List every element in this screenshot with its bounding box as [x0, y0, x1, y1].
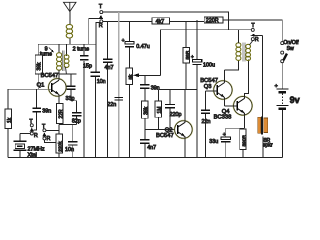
- wire Q4 collector: [245, 60, 249, 99]
- wire mid V+ line: [161, 29, 252, 31]
- svg-text:220p: 220p: [170, 112, 182, 118]
- svg-text:+: +: [191, 54, 194, 60]
- svg-text:R: R: [34, 133, 38, 139]
- svg-text:22n: 22n: [107, 102, 116, 108]
- wire emitter junction line: [59, 123, 77, 134]
- wire antenna to tank line: [69, 39, 71, 45]
- capacitor 220p: [165, 90, 175, 130]
- resistor 1k: [5, 89, 13, 157]
- svg-text:4k7: 4k7: [156, 19, 165, 25]
- svg-text:R: R: [99, 23, 103, 29]
- wire 220R to on/off switch: [223, 20, 282, 42]
- capacitor 100u electrolytic: [192, 20, 201, 157]
- capacitor 39n (audio coupling): [140, 75, 149, 101]
- wire Q2 collector up: [184, 90, 186, 123]
- svg-text:82p: 82p: [72, 119, 81, 125]
- RX transformer right coil: [246, 44, 251, 60]
- wire Q4 emitter: [226, 113, 245, 128]
- wire wiper riser: [160, 30, 162, 76]
- wire Q4 base line: [225, 105, 238, 107]
- svg-text:+: +: [122, 38, 125, 44]
- svg-text:Sw: Sw: [287, 46, 294, 52]
- wire Q3 collector up to transformer: [225, 61, 239, 83]
- capacitor 4n7 (Q2 base): [140, 129, 150, 157]
- svg-text:Q3: Q3: [204, 84, 212, 90]
- wire Q2 emitter down: [184, 137, 186, 158]
- svg-text:39k: 39k: [143, 106, 149, 115]
- wire sw1d wiper to speaker: [261, 35, 263, 117]
- capacitor 82p: [72, 101, 82, 125]
- svg-text:22n: 22n: [202, 119, 211, 125]
- TX transformer primary 9 turns: [57, 44, 62, 70]
- svg-text:spkr: spkr: [263, 142, 273, 148]
- speaker 8R: [258, 116, 268, 157]
- svg-text:R: R: [47, 136, 51, 142]
- RX transformer core: [243, 43, 245, 62]
- svg-text:4n7: 4n7: [147, 145, 156, 151]
- svg-text:+: +: [223, 132, 226, 138]
- svg-text:9v: 9v: [290, 95, 300, 105]
- wire sw1c T to 22R bottom: [46, 129, 59, 131]
- wire Q1 collector up: [58, 70, 60, 80]
- capacitor 10n: [90, 72, 99, 157]
- wire Q1 base line: [8, 88, 52, 90]
- svg-text:220R: 220R: [206, 18, 219, 24]
- svg-text:T: T: [99, 4, 103, 10]
- svg-text:56R: 56R: [185, 50, 191, 59]
- svg-text:220k: 220k: [58, 141, 64, 152]
- svg-text:390R: 390R: [242, 134, 248, 146]
- capacitor 10n (emitter): [68, 125, 77, 158]
- wire Q1 emitter down: [58, 95, 60, 104]
- svg-text:10n: 10n: [97, 79, 106, 85]
- svg-text:33p: 33p: [66, 96, 75, 102]
- T/R switch Sw1c: [42, 129, 46, 140]
- capacitor 33p: [67, 74, 77, 101]
- TX transformer secondary 2 turns: [64, 44, 69, 67]
- RX transformer left coil: [236, 43, 241, 61]
- capacitor 22n (Q3 base): [201, 91, 210, 157]
- resistor 39k (Q2 bias): [141, 101, 149, 130]
- svg-text:5k: 5k: [128, 74, 134, 80]
- wire 4k7 to 220R: [170, 20, 205, 22]
- svg-text:2 turns: 2 turns: [73, 47, 90, 53]
- T/R switch Sw1d: [251, 28, 263, 40]
- wire Q3 base line: [206, 90, 218, 92]
- svg-text:BC338: BC338: [214, 114, 232, 120]
- capacitor 15p: [80, 44, 88, 157]
- svg-text:BC547: BC547: [156, 133, 174, 139]
- capacitor 4n7: [103, 21, 113, 157]
- wire switch to battery: [281, 63, 283, 89]
- svg-text:100u: 100u: [203, 63, 215, 69]
- svg-text:10n: 10n: [65, 147, 74, 153]
- capacitor 0.47u electrolytic: [125, 21, 134, 68]
- wire Q2 node line: [158, 88, 197, 90]
- svg-text:27MHz: 27MHz: [28, 146, 45, 152]
- wire rail A top: [103, 12, 229, 30]
- wire collector node to 33p: [59, 73, 77, 75]
- battery 9v: [275, 83, 289, 157]
- svg-text:39n: 39n: [42, 108, 51, 114]
- wire transformer right top to R: [250, 41, 253, 45]
- gray screen line: [118, 12, 120, 157]
- potentiometer 5k: [126, 68, 161, 157]
- TX transformer core: [62, 51, 64, 71]
- resistor 220k: [56, 134, 64, 157]
- antenna loading coil 3 turns: [66, 24, 72, 38]
- svg-text:15p: 15p: [83, 64, 92, 70]
- svg-text:0.47u: 0.47u: [136, 44, 150, 50]
- crystal 27MHz: [13, 134, 30, 158]
- bottom rail 0v: [8, 156, 283, 158]
- svg-text:33u: 33u: [209, 139, 218, 145]
- resistor 390R: [240, 128, 248, 157]
- svg-text:BC547: BC547: [41, 73, 59, 79]
- transistor Q3 BC547: [213, 80, 233, 100]
- svg-text:1M: 1M: [157, 107, 163, 114]
- svg-text:1k: 1k: [7, 117, 13, 123]
- resistor 1M: [155, 90, 163, 130]
- tank top line: [38, 43, 96, 45]
- resistor 4k7: [152, 18, 170, 25]
- T/R switch Sw1b (xtal): [30, 124, 34, 135]
- wire sw1 wiper down: [88, 19, 90, 45]
- svg-text:Q1: Q1: [37, 82, 45, 88]
- T/R switch Sw1a: [89, 11, 103, 23]
- svg-text:4n7: 4n7: [105, 65, 114, 71]
- switch On/Off: [281, 42, 287, 63]
- resistor 22R: [56, 103, 64, 123]
- wire Q2 base line: [145, 128, 175, 130]
- svg-text:T: T: [251, 23, 255, 29]
- capacitor 33u electrolytic: [221, 128, 230, 157]
- resistor 220R: [204, 17, 223, 24]
- capacitor 22n (on screen line): [114, 98, 123, 100]
- svg-text:39k: 39k: [37, 62, 43, 71]
- svg-text:R: R: [255, 37, 259, 43]
- wire secondary bottom to collector node: [65, 67, 68, 74]
- wire rail B from R to 4k7: [103, 20, 152, 22]
- wire R-drop from sw1 to 10n: [96, 23, 100, 72]
- capacitor 39n (xtal): [33, 89, 41, 130]
- transistor Q2 BC547: [174, 120, 193, 139]
- wire transformer left top: [238, 30, 240, 44]
- antenna: [64, 2, 77, 24]
- resistor 39k (osc base): [35, 44, 43, 89]
- svg-text:22R: 22R: [58, 109, 64, 119]
- transistor Q1 BC547: [48, 78, 67, 97]
- transistor Q4 BC338: [233, 96, 253, 116]
- wire Q3 emitter down: [224, 98, 226, 106]
- wire sw1c R to 220k: [44, 140, 56, 143]
- resistor 56R (decoupling): [183, 21, 191, 89]
